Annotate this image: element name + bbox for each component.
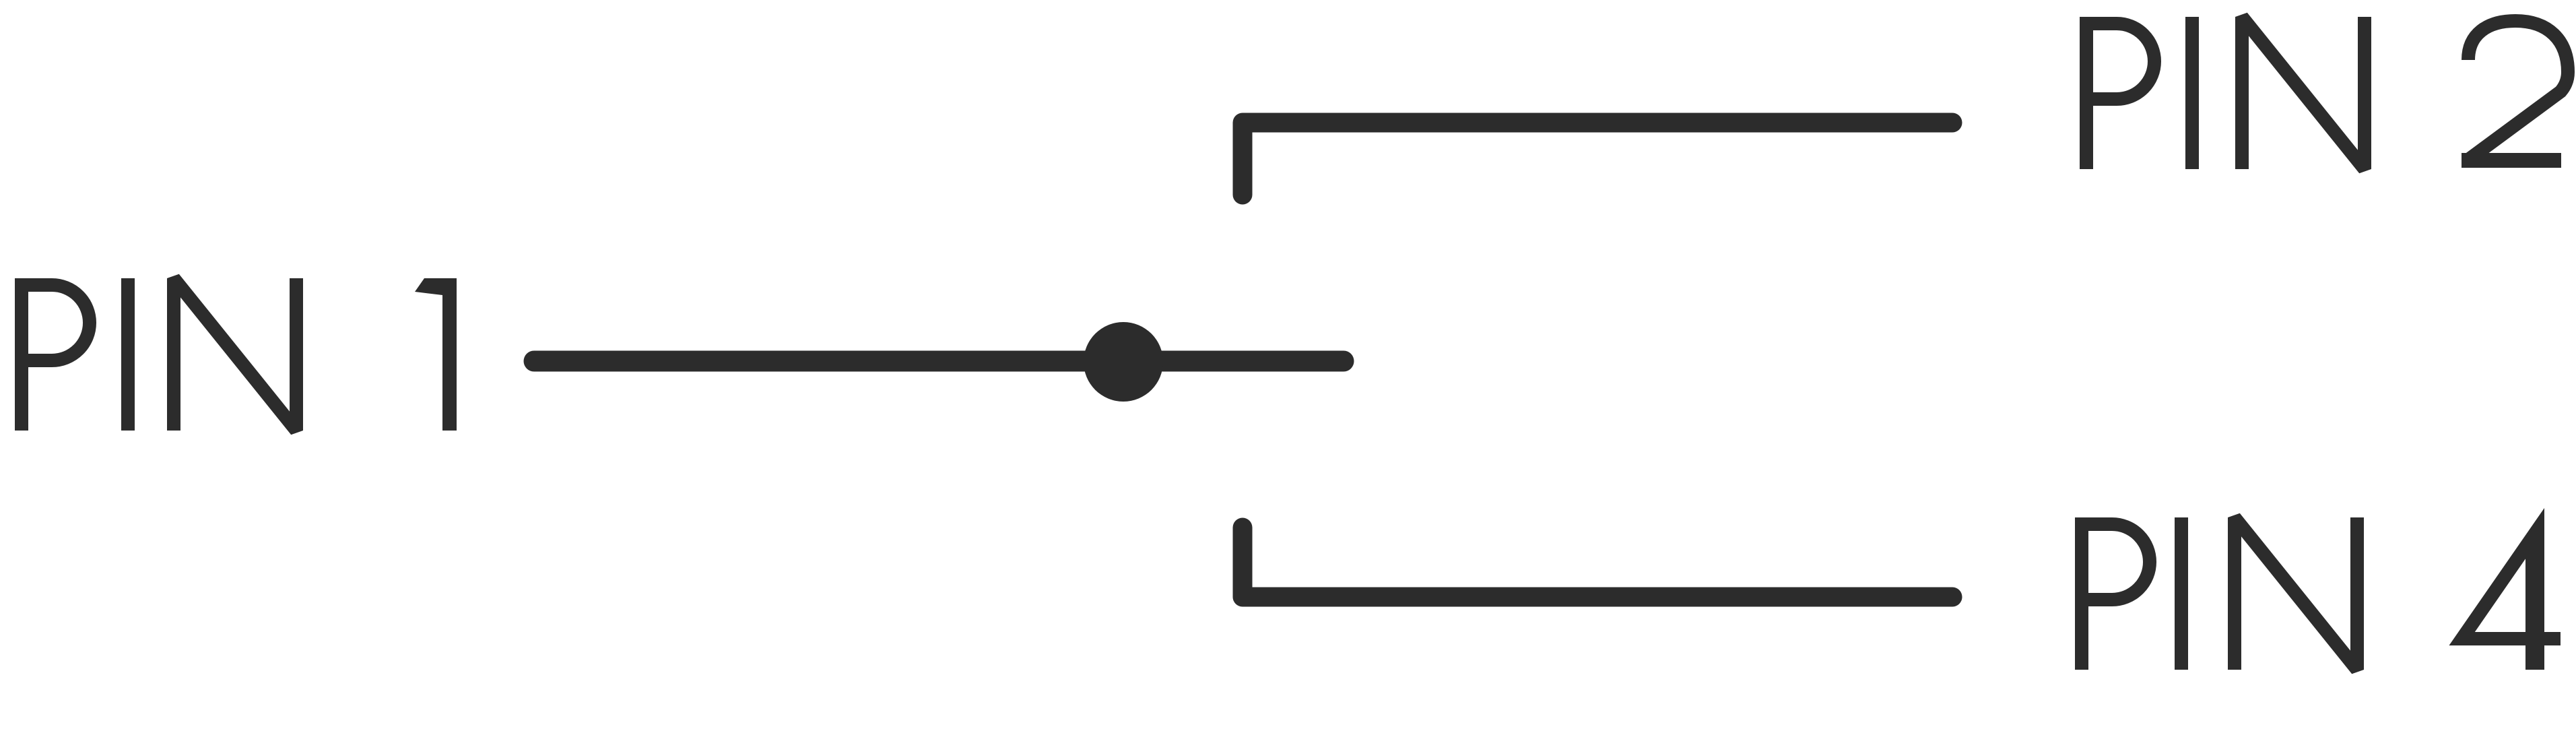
- wire to PIN 2 (vertical stub + horizontal): [1243, 123, 1952, 195]
- digit 4 of PIN 4: [2449, 508, 2561, 670]
- node label PIN 2: [2086, 17, 2568, 169]
- letter N of PIN 2: [2242, 17, 2365, 169]
- letter N of PIN 1: [174, 278, 296, 431]
- letter I of PIN 1: [121, 278, 135, 431]
- letter I of PIN 4: [2175, 517, 2188, 670]
- letter P of PIN 4: [2082, 517, 2150, 670]
- letter I of PIN 2: [2185, 17, 2199, 169]
- wire from PIN 1 to junction: [534, 351, 1344, 372]
- digit 1 of PIN 1: [415, 278, 457, 431]
- junction node dot: [1084, 322, 1163, 402]
- wire to PIN 4 (vertical stub + horizontal): [1243, 528, 1952, 597]
- node label PIN 4: [2082, 508, 2561, 670]
- letter P of PIN 1: [22, 278, 90, 431]
- node label PIN 1: [22, 278, 457, 431]
- digit 2 of PIN 2: [2462, 21, 2568, 162]
- letter N of PIN 4: [2235, 517, 2357, 670]
- letter P of PIN 2: [2086, 17, 2154, 169]
